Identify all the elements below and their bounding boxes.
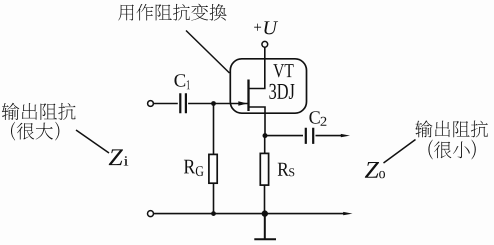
annotation: 输出阻抗 (left) bbox=[2, 103, 76, 120]
annotation: 输出阻抗 (right) bbox=[415, 120, 488, 137]
resistor RG bbox=[209, 154, 217, 183]
node: source junction bbox=[263, 133, 268, 138]
wire: source junction to C2 bbox=[265, 135, 303, 137]
power terminal circle +U bbox=[262, 41, 268, 47]
wire: RS to bottom rail bbox=[264, 185, 266, 214]
label RG bbox=[184, 160, 195, 174]
bottom rail wire bbox=[154, 213, 346, 215]
transistor VT box outline bbox=[230, 59, 306, 113]
leader line from Zo to (很小) bbox=[384, 140, 416, 164]
leader line from (很大) to Zi bbox=[76, 130, 109, 153]
leader line from annotation to transistor box bbox=[186, 31, 230, 74]
annotation: 用作阻抗变换 (used as impedance transformation) bbox=[118, 4, 226, 21]
node: gate junction bbox=[211, 101, 216, 106]
transistor VT label "3DJ" bbox=[269, 84, 294, 99]
input terminal circle bbox=[148, 101, 154, 107]
wire: RG to bottom rail bbox=[213, 183, 215, 213]
label Zo bbox=[365, 162, 379, 178]
transistor VT gate arrowhead bbox=[238, 101, 247, 105]
wire: C1 to gate bbox=[188, 103, 248, 105]
label C2 bbox=[309, 111, 319, 124]
bottom rail arrowhead bbox=[343, 212, 352, 215]
label Zi bbox=[109, 149, 123, 165]
power U glyph bbox=[264, 21, 278, 34]
node: ground junction bbox=[262, 210, 268, 216]
wire: C2 to output arrow bbox=[316, 135, 344, 137]
label C1 bbox=[174, 74, 185, 87]
annotation: (很小) bbox=[428, 140, 432, 160]
transistor VT label "VT" bbox=[273, 64, 293, 77]
transistor VT JFET channel bar bbox=[247, 80, 249, 112]
power +U label bbox=[254, 24, 261, 31]
output arrowhead bbox=[341, 134, 350, 137]
capacitor C2 plates bbox=[306, 128, 313, 144]
resistor RS bbox=[260, 153, 268, 185]
wire: gate junction down to RG bbox=[213, 104, 215, 155]
node: RG / bottom rail junction bbox=[211, 211, 216, 216]
wire: input terminal to C1 bbox=[153, 103, 177, 105]
label RS bbox=[278, 163, 289, 176]
ground symbol bbox=[254, 214, 276, 240]
transistor VT source lead bbox=[249, 107, 265, 136]
wire: +U terminal to drain bbox=[249, 47, 265, 88]
wire: source junction to RS bbox=[264, 136, 266, 154]
annotation: (很大) bbox=[11, 122, 15, 141]
bottom-left terminal circle bbox=[148, 211, 154, 217]
capacitor C1 plates bbox=[180, 93, 186, 113]
